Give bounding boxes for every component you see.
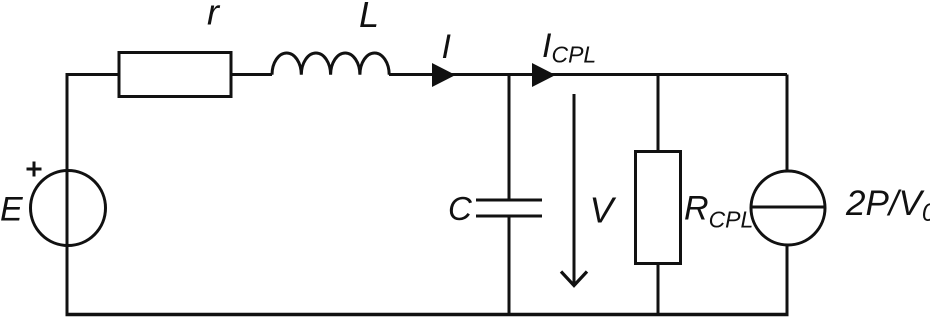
svg-text:V: V [590, 190, 617, 231]
capacitor C bottom lead [508, 216, 511, 314]
arrowhead I [432, 63, 456, 87]
wire top: source to resistor [66, 73, 120, 76]
current source top lead [786, 75, 789, 172]
arrow V line [573, 94, 576, 284]
resistor r [119, 53, 231, 97]
source E circle [31, 171, 106, 246]
resistor R_CPL bottom lead [657, 264, 660, 315]
wire left vertical [66, 75, 69, 315]
svg-text:ICPL: ICPL [542, 27, 596, 68]
svg-text:L: L [359, 0, 379, 35]
inductor L [272, 53, 389, 75]
svg-text:2P/V0: 2P/V0 [845, 184, 930, 227]
resistor R_CPL body [636, 152, 681, 264]
capacitor C top lead [508, 75, 511, 201]
svg-text:I: I [442, 28, 452, 66]
wire inductor to right branch [389, 73, 787, 76]
plus sign of source E [27, 162, 42, 177]
arrowhead I_CPL [532, 63, 556, 87]
current source bottom lead [786, 245, 789, 314]
current source circle [751, 171, 825, 245]
svg-text:C: C [448, 190, 473, 227]
svg-text:r: r [207, 0, 221, 33]
wire bottom [66, 313, 789, 316]
arrow V open head [561, 272, 587, 286]
wire resistor to inductor [231, 73, 272, 76]
svg-text:E: E [0, 191, 23, 229]
capacitor C plates [476, 200, 542, 216]
resistor R_CPL top lead [657, 75, 660, 152]
current source bar [751, 206, 825, 209]
svg-text:RCPL: RCPL [684, 190, 753, 233]
